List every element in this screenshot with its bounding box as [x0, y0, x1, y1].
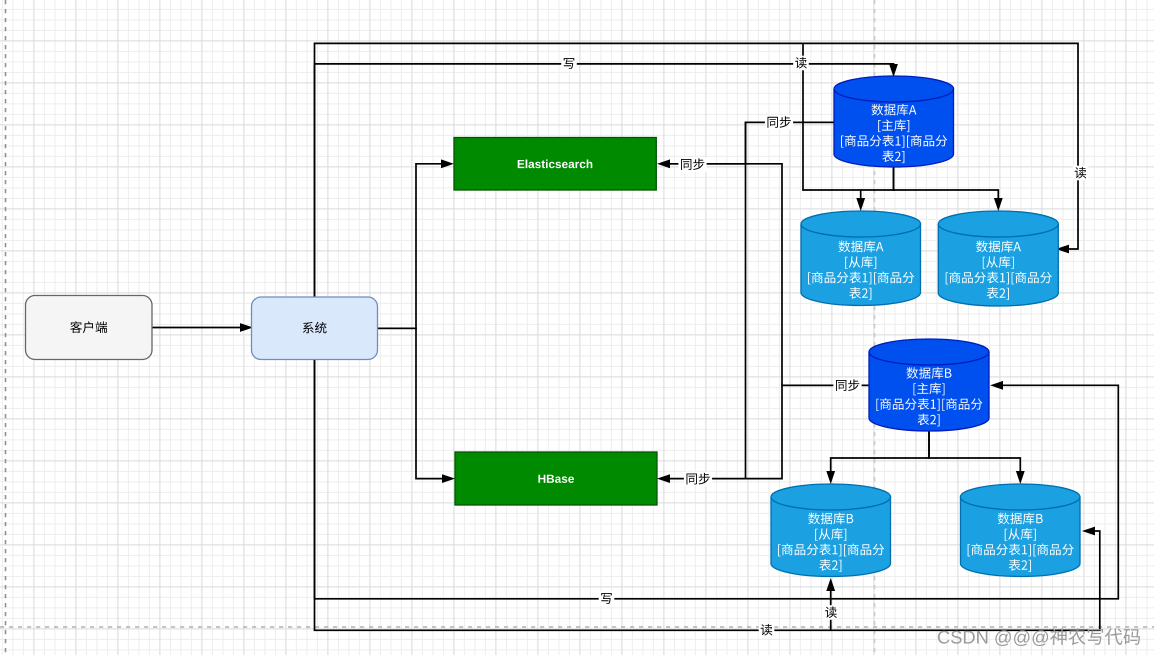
label 读 bottom — [759, 623, 775, 638]
cylinder 数据库A 从库2 — [938, 211, 1058, 306]
wire 系统→HBase — [378, 328, 452, 478]
wire 数据库B主库→从库2 — [929, 431, 1020, 479]
label 同步 数据库A — [765, 115, 793, 130]
page border dashed vertical left — [5, 0, 7, 655]
wire 数据库A→Elasticsearch 同步 — [661, 122, 834, 164]
label 写 top — [561, 56, 577, 71]
wire 系统→Elasticsearch — [378, 164, 451, 328]
page border dashed vertical middle — [874, 0, 876, 655]
node 系统 — [252, 297, 378, 360]
wire 数据库B→HBase 同步 — [746, 385, 870, 478]
label 读 branch — [823, 605, 839, 620]
label 读 right — [1073, 166, 1089, 181]
cylinder 数据库A 从库1 — [801, 212, 921, 306]
wire 数据库A主库→从库1 — [861, 168, 894, 191]
wire 系统→数据库A从库2 读 top — [315, 43, 1079, 296]
wire 系统→数据库A从库1 读 branch — [803, 43, 861, 206]
cylinder 数据库B 从库1 — [771, 485, 891, 577]
node Elasticsearch — [454, 138, 656, 191]
label 同步 数据库B — [833, 378, 861, 393]
wire 系统→数据库A主库 写 — [315, 64, 894, 297]
label 读 top — [793, 56, 809, 71]
cylinder 数据库B 从库2 — [961, 485, 1081, 577]
wire 读→数据库B从库1 bottom branch — [830, 583, 832, 630]
node 客户端 — [26, 296, 153, 360]
node HBase — [455, 452, 657, 505]
wire 数据库B→Elasticsearch 同步 — [661, 164, 869, 385]
page border dashed horizontal bottom — [0, 626, 1154, 628]
cylinder 数据库B 主库 — [869, 339, 989, 431]
wire 数据库A→HBase 同步 — [661, 122, 834, 478]
watermark CSDN — [938, 628, 1140, 646]
label 同步 Elasticsearch — [678, 157, 706, 172]
cylinder 数据库A 主库 — [834, 77, 954, 167]
wire 数据库B主库→从库1 — [831, 431, 929, 479]
wire 系统→数据库B主库 写 bottom — [315, 360, 1119, 599]
wire 数据库A主库→从库2 — [894, 168, 999, 207]
wire 系统→数据库B从库2 读 bottom — [315, 360, 1100, 630]
label 同步 HBase — [684, 472, 712, 487]
wire 客户端→系统 — [152, 327, 250, 329]
label 写 bottom — [599, 591, 615, 606]
